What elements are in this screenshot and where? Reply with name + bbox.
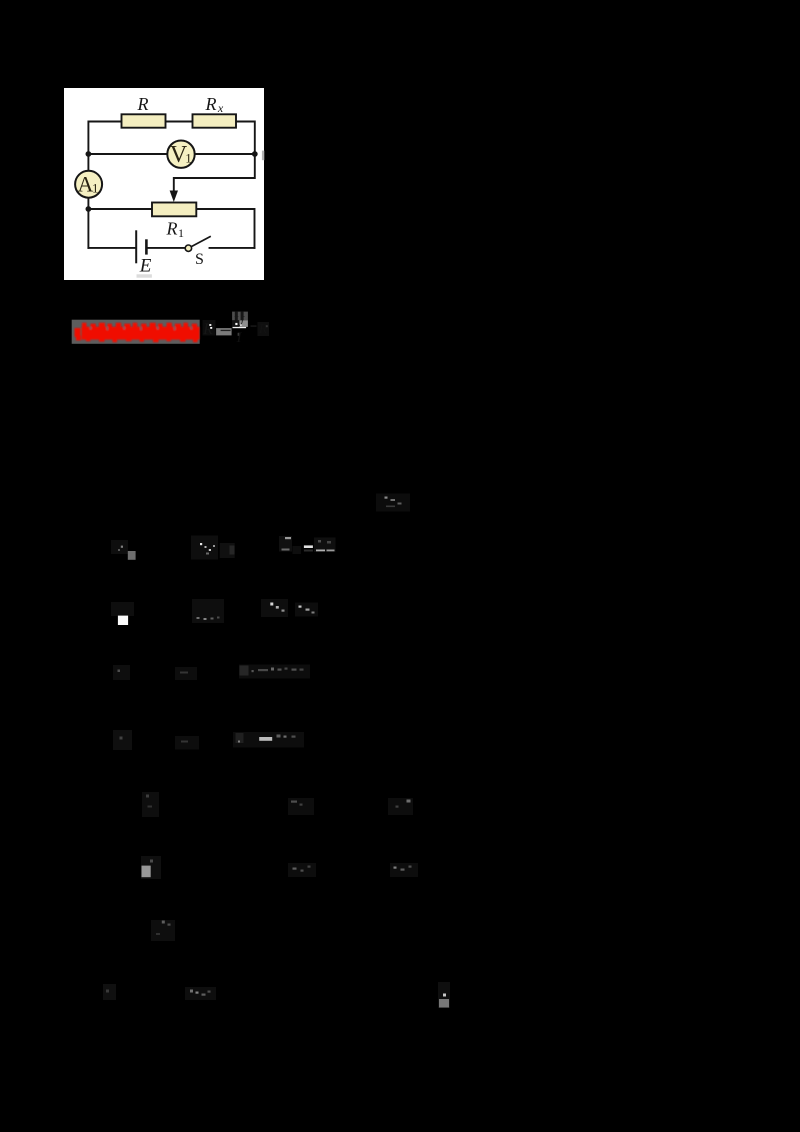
wire battery to switch (148, 247, 186, 249)
wiper arrowhead (170, 191, 178, 203)
svg-text:R: R (166, 219, 178, 239)
row8 label A (103, 984, 116, 1000)
formula minus R tail (251, 322, 270, 337)
switch S (185, 236, 211, 251)
row2 item2 (261, 599, 288, 617)
gray tick card right edge (262, 151, 264, 161)
highlighted strip (72, 320, 200, 344)
row6 item2 (288, 863, 316, 877)
formula R_x (202, 320, 215, 338)
wire top mid (166, 121, 193, 123)
faint header cluster (376, 494, 410, 512)
row3 equation (239, 665, 310, 679)
battery E (136, 230, 146, 263)
resistor R (122, 114, 166, 127)
svg-text:1: 1 (92, 181, 99, 196)
gray bar under E (137, 274, 152, 277)
row4 formula (175, 736, 199, 750)
svg-text:I: I (236, 330, 243, 346)
rheostat R1 (152, 203, 196, 217)
row1 equation (279, 536, 336, 554)
formula fraction U/I (232, 312, 248, 346)
svg-text:R: R (137, 94, 149, 114)
svg-text:1: 1 (185, 151, 192, 166)
svg-text:1: 1 (178, 226, 184, 240)
formula equals box (216, 328, 232, 335)
svg-text:E: E (139, 256, 152, 277)
row1 marker (111, 540, 136, 560)
row3 marker (113, 665, 130, 680)
node dot left-lower (86, 206, 92, 212)
svg-text:R: R (202, 321, 213, 338)
svg-text:R: R (258, 322, 268, 337)
svg-text:R: R (205, 94, 217, 114)
wire R1 left (88, 208, 152, 210)
row5 item3 (388, 798, 413, 815)
row8 cluster (185, 987, 216, 1000)
row5 item1 (142, 792, 159, 817)
row3 formula (175, 667, 197, 680)
row6 item1 (141, 856, 161, 879)
wire R1 right (196, 209, 254, 248)
row2 item3 (295, 603, 318, 617)
wire mid left (88, 153, 167, 155)
wire left vertical lower (87, 198, 89, 248)
row7 item (151, 920, 175, 941)
node dot left-mid (86, 151, 92, 157)
ammeter A1 (75, 171, 102, 198)
red text blobs (75, 323, 200, 342)
resistor Rx (193, 114, 237, 127)
wire wiper tap (174, 154, 255, 194)
wire switch to right (210, 247, 255, 249)
row1 formula (191, 536, 235, 560)
svg-text:S: S (195, 251, 204, 268)
wire mid right (195, 153, 255, 155)
circuit card background (64, 88, 264, 280)
row2 formula (192, 599, 224, 623)
svg-text:x: x (217, 101, 224, 115)
row2 marker (111, 602, 134, 625)
row5 item2 (288, 798, 314, 815)
wire left vertical upper (87, 154, 89, 171)
wire bottom left (88, 247, 135, 249)
voltmeter V1 (167, 141, 194, 169)
wire top right (236, 122, 255, 155)
row8 far item (438, 982, 450, 1008)
row4 marker (113, 730, 132, 750)
wire top left (88, 122, 121, 155)
row4 equation (233, 732, 304, 748)
row6 item3 (390, 863, 418, 877)
node dot right-mid (252, 151, 258, 157)
